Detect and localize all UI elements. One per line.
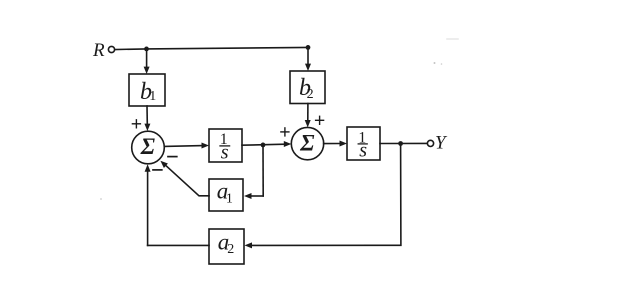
sign - (a2 input of S1) [153, 169, 162, 171]
integrator block 1/s #1 [209, 129, 242, 162]
wire: b2 down into summer S2 (arrow) [305, 104, 311, 128]
block b1 [129, 74, 165, 106]
svg-text:1: 1 [226, 191, 233, 206]
input label R [92, 40, 105, 61]
summer S2 [291, 127, 323, 159]
integrator block 1/s #2 [347, 127, 380, 160]
svg-text:1: 1 [149, 89, 156, 104]
svg-text:Σ: Σ [140, 134, 155, 159]
wire: into a1 right side (arrow) [244, 193, 263, 199]
wire: node down into b2 (arrow) [305, 47, 311, 71]
svg-text:2: 2 [307, 87, 314, 102]
sign - (a1 input of S1) [168, 156, 177, 158]
wire: S1 to integrator 1 (arrow) [164, 143, 209, 149]
node: y tap on output wire [398, 141, 403, 146]
svg-text:2: 2 [227, 242, 234, 257]
wire: y tap down and left into a2 (arrow) [245, 144, 401, 249]
wire: a1 diagonal up to S1 (arrow) [160, 161, 209, 196]
output terminal Y [427, 140, 433, 146]
svg-text:R: R [92, 40, 105, 61]
summer S1 [132, 131, 165, 164]
scan specks (noise) [100, 38, 459, 200]
input terminal R [108, 46, 114, 52]
block b2 [290, 71, 325, 104]
wire: integrator 1 to summer S2 (arrow) [242, 141, 291, 147]
node: junction above b2 [306, 45, 311, 50]
sign + (b1 input of S1) [132, 120, 140, 128]
wire: x1 tap down to a1 level [262, 145, 264, 196]
wire: a2 feedback up into S1 bottom (arrow) [145, 164, 151, 245]
sign + (b2 input of S2) [316, 116, 324, 124]
svg-text:Y: Y [435, 132, 448, 153]
wire: S2 to integrator 2 (arrow) [324, 141, 347, 147]
wire: node down into b1 (arrow) [144, 49, 150, 74]
block a1 [209, 179, 243, 211]
sign + (forward input of S2) [281, 128, 289, 136]
svg-text:Σ: Σ [299, 130, 314, 155]
output label Y [435, 132, 448, 153]
block a2 [209, 229, 244, 264]
wire: R terminal to b2 tap (top bus) [115, 47, 308, 49]
svg-text:s: s [221, 141, 229, 163]
svg-text:s: s [359, 139, 367, 161]
node: junction above b1 [144, 47, 149, 52]
wire: integrator 2 to output terminal [380, 142, 427, 144]
wire: a2 left to feedback corner [148, 244, 209, 246]
node: x1 tap after integrator 1 [261, 143, 266, 148]
wire: b1 down into summer S1 (arrow) [144, 106, 150, 131]
